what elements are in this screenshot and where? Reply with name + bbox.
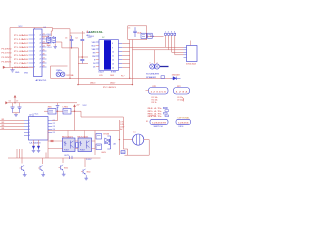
svg-text:VCC: VCC: [83, 105, 88, 107]
svg-text:VEE: VEE: [92, 49, 97, 51]
LCD left pin RW: [96, 55, 99, 57]
wire cross vertical: [81, 31, 83, 39]
svg-text:1 2 3 4: 1 2 3 4: [176, 91, 190, 93]
pin 9 stub U1 left: [29, 66, 34, 68]
wire stub row EA: [70, 32, 85, 34]
wire box right: [146, 26, 148, 37]
pin stub U2 right 14: [48, 132, 52, 134]
wire XTAL1: [42, 35, 49, 37]
svg-text:SPEAKER: SPEAKER: [146, 76, 157, 79]
wire input IN2: [0, 123, 24, 125]
resistor pack RP2: [174, 88, 190, 95]
svg-text:1 2 3 4 5 6: 1 2 3 4 5 6: [151, 91, 168, 93]
svg-text:12345678: 12345678: [152, 122, 167, 124]
wire power mid b: [56, 110, 63, 112]
sounder LS1 circle A: [150, 64, 155, 69]
wire lamp loop left: [127, 149, 129, 155]
LCD left pin VEE: [96, 48, 99, 50]
optocoupler U3 body: [63, 138, 76, 152]
wire U1 pin31 stub: [34, 28, 36, 29]
svg-text:VDD: VDD: [91, 45, 96, 47]
svg-text:2: 2: [34, 39, 35, 41]
svg-text:28: 28: [43, 62, 45, 64]
wire vertical LCD right A: [129, 39, 131, 78]
svg-text:O5: O5: [53, 132, 55, 134]
svg-text:LM016L: LM016L: [89, 30, 104, 34]
wire right loop v: [122, 117, 124, 149]
svg-text:R3 1k: R3 1k: [152, 102, 157, 104]
junction d: [14, 102, 15, 103]
transistor Q2: [39, 166, 41, 170]
svg-text:AT89C51: AT89C51: [36, 79, 48, 82]
LCD screen area: [104, 40, 111, 69]
svg-text:C6: C6: [9, 101, 11, 103]
svg-text:MOC3021: MOC3021: [62, 136, 73, 138]
wire bottom rail: [8, 157, 101, 159]
svg-text:12MHz: 12MHz: [56, 70, 62, 72]
svg-text:VSS: VSS: [24, 73, 29, 75]
svg-text:D0-D7: D0-D7: [99, 72, 104, 74]
svg-text:5: 5: [29, 132, 30, 134]
wire triac box left: [94, 131, 96, 156]
wire input IN1: [0, 120, 24, 122]
wire drop q4: [84, 158, 86, 167]
svg-text:4: 4: [29, 129, 30, 131]
svg-text:DS1302: DS1302: [186, 64, 197, 66]
resistor R2: [148, 33, 153, 38]
svg-text:21: 21: [40, 35, 42, 37]
svg-text:1N4148: 1N4148: [172, 75, 180, 77]
power input arrow: [6, 102, 8, 105]
wire caps bottom rail: [62, 47, 79, 49]
svg-text:A2: A2: [114, 142, 116, 145]
wire header pin 3 down: [171, 35, 173, 52]
wire bus row 4: [175, 54, 184, 56]
svg-text:IN4: IN4: [2, 128, 5, 130]
power flag arrow: [3, 66, 5, 69]
svg-text:4: 4: [34, 47, 35, 49]
wire top jog horizontal: [53, 28, 71, 30]
switch SW1: [150, 119, 168, 124]
pin stub U2 right 11: [48, 123, 52, 125]
pin stub U1 right P0.1: [42, 38, 47, 40]
ground crystal: [54, 44, 56, 47]
wire LCD pin 8: [122, 42, 129, 44]
pin stub U1 right P0.2: [42, 42, 47, 44]
crystal X1 circle B: [61, 72, 65, 76]
svg-text:5V: 5V: [102, 37, 105, 39]
svg-text:21: 21: [43, 34, 45, 36]
thermistor mark: [161, 76, 165, 79]
wire right loop h: [81, 116, 123, 118]
LCD left pin D1: [96, 66, 99, 68]
pin 4 stub U1 left: [29, 46, 34, 48]
wire box bottom: [128, 39, 147, 41]
svg-text:9: 9: [34, 67, 35, 69]
svg-text:12: 12: [112, 59, 114, 61]
junction cross: [82, 56, 84, 58]
wire lamp loop bottom: [125, 154, 150, 156]
svg-text:E RW: E RW: [111, 72, 116, 74]
svg-text:P1.5/AD5: P1.5/AD5: [14, 54, 29, 57]
wire power mid a: [44, 110, 48, 112]
pin stub U5 1: [184, 46, 187, 48]
pin stub U5 4: [184, 54, 187, 56]
wire header pin 1 down: [165, 35, 167, 47]
wire sounder feed: [154, 50, 156, 64]
pin stub U1 right P0.6: [42, 58, 47, 60]
svg-text:1602: 1602: [110, 75, 114, 77]
wire opto link a: [75, 140, 78, 142]
wire RST rail: [3, 66, 34, 68]
svg-text:P2.0: P2.0: [150, 36, 155, 38]
wire left vertical to EA: [9, 28, 11, 68]
svg-text:7805: 7805: [48, 107, 52, 109]
ground caps power: [15, 113, 17, 115]
capacitor C7 electrolytic: [19, 103, 21, 107]
wire cap C10 to U2: [57, 111, 59, 120]
wire LCD pin 9: [122, 46, 129, 48]
wire bus row 3: [172, 51, 184, 53]
ground U2 a: [33, 149, 35, 151]
wire power rail top: [8, 102, 77, 104]
svg-text:S1 RST: S1 RST: [150, 115, 157, 117]
junction f: [132, 84, 133, 85]
svg-text:9: 9: [112, 47, 113, 49]
ground Q1: [24, 172, 26, 175]
wire SSR box left: [47, 131, 49, 159]
lamp LP1: [133, 134, 144, 145]
wire VCC rail top: [10, 27, 53, 29]
svg-text:27: 27: [43, 58, 45, 60]
svg-text:29: 29: [43, 66, 45, 68]
wire U2 gnd b: [38, 140, 40, 147]
svg-text:VCC: VCC: [19, 26, 24, 28]
pin 2 stub U1 left: [29, 38, 34, 40]
svg-text:RP2: RP2: [177, 86, 181, 88]
svg-text:IN2: IN2: [2, 122, 5, 124]
svg-text:P2.7: P2.7: [121, 75, 125, 77]
svg-text:K1: K1: [146, 121, 148, 123]
svg-text:L7806: L7806: [63, 107, 68, 109]
connector marks: [69, 156, 71, 159]
svg-text:BT136: BT136: [104, 134, 110, 136]
wire corner a2: [56, 41, 62, 43]
wire crystal top to rail: [50, 31, 52, 36]
resistor row R4 body: [164, 107, 168, 109]
regulator B2 body: [63, 109, 71, 115]
svg-text:10: 10: [112, 51, 114, 53]
pin stub U2 left IN3: [24, 126, 29, 128]
resistor R10 small: [76, 143, 79, 148]
wire opto link b: [75, 148, 78, 150]
diode D1: [173, 77, 176, 80]
wire mains vertical: [118, 120, 120, 155]
pin 1 stub U1 left: [29, 34, 34, 36]
transistor Q1: [21, 166, 23, 170]
pin stub U5 3: [184, 51, 187, 53]
wire opto out a: [92, 140, 96, 142]
wire LCD pin 14: [122, 67, 129, 69]
junction e: [57, 111, 58, 112]
svg-text:DIP-6: DIP-6: [179, 126, 184, 128]
capacitor C5: [134, 27, 136, 31]
wire U3 top pin: [67, 131, 69, 139]
svg-text:D1: D1: [93, 66, 95, 68]
resistor R1: [141, 33, 146, 38]
svg-text:29: 29: [40, 67, 42, 69]
svg-text:5: 5: [34, 51, 35, 53]
wire header pin 2 down: [168, 35, 170, 49]
svg-text:L1: L1: [134, 131, 136, 133]
wire lamp feed: [123, 139, 132, 141]
svg-text:AC: AC: [120, 128, 123, 131]
wire opto in a: [48, 140, 63, 142]
svg-text:P3.3/INT1: P3.3/INT1: [2, 62, 12, 64]
header J1 pin 2 pad: [168, 33, 170, 35]
svg-text:13: 13: [112, 63, 114, 65]
sounder LS1 circle B: [154, 64, 159, 69]
sounder arrow: [160, 66, 169, 68]
svg-text:C5: C5: [128, 27, 130, 29]
svg-text:CRYSTAL: CRYSTAL: [66, 74, 75, 77]
svg-text:P1.7/AD7: P1.7/AD7: [14, 62, 29, 65]
LCD right pin stub 13: [119, 63, 123, 65]
wire bus row 2: [132, 49, 183, 51]
svg-text:C4: C4: [75, 37, 77, 39]
svg-text:O3: O3: [53, 126, 55, 128]
pin stub U2 right 13: [48, 129, 52, 131]
wire LCD pin 11: [122, 54, 129, 56]
wire LCD pin 13: [122, 63, 129, 65]
svg-text:8550: 8550: [87, 172, 91, 174]
wire vertical left of LCD: [77, 48, 79, 85]
svg-text:25: 25: [40, 51, 42, 53]
wire cross horizontal: [78, 56, 88, 58]
svg-text:P1.6/AD6: P1.6/AD6: [14, 58, 29, 61]
wire branch h: [78, 63, 88, 65]
svg-text:26: 26: [40, 55, 42, 57]
svg-text:PC817: PC817: [86, 159, 92, 161]
svg-text:+5V: +5V: [76, 105, 80, 107]
header J1 pin 3 pad: [171, 33, 173, 35]
svg-text:U1: U1: [44, 27, 46, 29]
pin stub U2 left IN1: [24, 120, 29, 122]
switch SW2: [176, 119, 191, 124]
resistor row R6 body: [164, 112, 168, 114]
svg-text:VSS: VSS: [92, 42, 97, 44]
svg-text:14: 14: [112, 68, 114, 70]
ground U2 b: [38, 149, 40, 151]
wire drop q3: [62, 158, 64, 163]
junction a: [69, 78, 70, 79]
junction power: [74, 110, 76, 112]
pin stub U5 2: [184, 49, 187, 51]
LCD left pin E: [96, 59, 99, 61]
power arrow entry: [14, 95, 16, 97]
resistor R8: [96, 134, 102, 140]
U2 top pin: [32, 114, 34, 117]
wire right loop down: [80, 111, 82, 117]
LCD right pin stub 8: [119, 42, 123, 44]
svg-text:25: 25: [43, 50, 45, 52]
svg-text:D0: D0: [93, 63, 95, 65]
svg-text:22: 22: [43, 38, 45, 40]
resistor row R5 body: [165, 110, 169, 112]
svg-text:P3.0/RXD: P3.0/RXD: [2, 48, 13, 50]
svg-text:SWITCH: SWITCH: [154, 126, 164, 128]
fuse F1: [121, 151, 125, 154]
junction lamp: [119, 139, 120, 140]
svg-text:123456: 123456: [178, 122, 190, 124]
wire lamp loop right: [148, 140, 150, 156]
pin stub U1 right ALE: [42, 66, 47, 68]
wire box left: [127, 26, 129, 40]
svg-text:C7: C7: [16, 101, 18, 103]
LCD right pin stub 11: [119, 54, 123, 56]
title tick: [86, 31, 88, 33]
svg-text:1: 1: [150, 63, 151, 65]
capacitor C4: [80, 38, 84, 40]
wire crystal box left: [50, 66, 52, 78]
capacitor C1: [47, 37, 51, 42]
capacitor C10: [57, 103, 59, 105]
pin 3 stub U1 left: [29, 42, 34, 44]
svg-text:O4: O4: [53, 129, 55, 131]
ground Q3: [63, 171, 65, 174]
svg-text:IN3: IN3: [2, 125, 5, 127]
crystal X1 circle A: [56, 72, 60, 76]
down arrow a: [32, 146, 35, 149]
svg-text:P3.1/TXD: P3.1/TXD: [2, 53, 13, 55]
pin stub U5 5: [184, 56, 187, 58]
LCD left pin D0: [96, 62, 99, 64]
svg-text:RP1: RP1: [153, 86, 157, 88]
header J1 pin 4 pad: [174, 33, 176, 35]
svg-text:O2: O2: [53, 123, 55, 125]
LCD right pin stub 12: [119, 59, 123, 61]
wire corner a: [61, 42, 63, 48]
svg-text:DB4-7: DB4-7: [110, 82, 115, 84]
svg-text:RS: RS: [93, 52, 96, 54]
wire U2 gnd a: [33, 140, 35, 147]
capacitor C2: [52, 37, 56, 42]
svg-text:OUT1: OUT1: [64, 155, 69, 157]
capacitor C11: [80, 58, 84, 60]
wire to SSR box: [74, 111, 76, 130]
wire vertical LCD right B: [131, 39, 133, 84]
wire drop d1: [16, 149, 18, 158]
wire long rail below LCD: [51, 77, 172, 79]
wire box to header: [147, 36, 164, 38]
wire triac to loop: [123, 148, 127, 150]
svg-text:8550: 8550: [64, 168, 68, 170]
svg-text:MOC3021: MOC3021: [78, 136, 89, 138]
wire LCD pin 12: [122, 59, 129, 61]
svg-text:3: 3: [34, 43, 35, 45]
svg-text:1: 1: [34, 35, 35, 37]
svg-text:6: 6: [34, 55, 35, 57]
pin stub U1 right P0.0: [42, 34, 47, 36]
wire drop d2: [19, 149, 21, 158]
power arrow VCC: [74, 106, 76, 111]
wire drop d3: [21, 149, 23, 164]
wire U4 top pin: [84, 131, 86, 139]
svg-text:GND: GND: [15, 72, 20, 74]
wire bus row 1: [130, 46, 184, 48]
svg-text:22: 22: [40, 39, 42, 41]
ground U1 left: [12, 67, 14, 70]
svg-text:6: 6: [29, 135, 30, 137]
svg-text:P1.3/AD3: P1.3/AD3: [14, 46, 29, 49]
ground Q2: [42, 172, 44, 175]
pin stub U2 left IN4: [24, 129, 29, 131]
pin 7 stub U1 left: [29, 58, 34, 60]
wire XTAL2: [42, 43, 49, 45]
svg-text:IN1: IN1: [2, 119, 5, 121]
svg-text:7: 7: [34, 59, 35, 61]
pin stub U2 left IN2: [24, 123, 29, 125]
pin 5 stub U1 left: [29, 50, 34, 52]
svg-text:PC-8051: PC-8051: [103, 87, 117, 89]
pin stub U2 right 10: [48, 120, 52, 122]
svg-text:2: 2: [157, 63, 158, 65]
red tick mark: [183, 98, 185, 101]
wire jog down: [52, 28, 54, 31]
junction caps: [71, 47, 72, 48]
svg-text:P1.2/AD2: P1.2/AD2: [14, 42, 29, 45]
resistor R9: [96, 144, 102, 150]
wire drop q2: [42, 158, 44, 164]
svg-text:C3: C3: [65, 37, 67, 39]
svg-text:2: 2: [29, 123, 30, 125]
wire opto out b: [92, 148, 96, 150]
wire power mid c: [71, 110, 81, 112]
svg-text:3: 3: [29, 126, 30, 128]
LCD left pin VDD: [96, 45, 99, 47]
svg-text:8: 8: [34, 63, 35, 65]
pin stub U1 right P0.3: [42, 46, 47, 48]
wire box right lower: [146, 37, 148, 40]
wire box top: [128, 25, 147, 27]
wire RP1 stub: [146, 90, 149, 92]
svg-text:C1 C2: C1 C2: [47, 34, 52, 36]
svg-text:P3.2/INT0: P3.2/INT0: [2, 57, 12, 59]
pin stub U2 left IN5: [24, 132, 29, 134]
LCD right pin stub 10: [119, 50, 123, 52]
svg-text:LCD: LCD: [99, 75, 103, 77]
wire lamp out: [144, 139, 149, 141]
junction b: [77, 84, 78, 85]
svg-text:600V: 600V: [102, 152, 107, 154]
svg-text:PC817: PC817: [80, 150, 85, 152]
wire U2 out1: [52, 120, 58, 122]
LCD right pin stub 14: [119, 67, 123, 69]
ground Q4: [85, 175, 87, 178]
resistor row R7 body: [165, 115, 169, 117]
IC U1 body (AT89C51): [34, 29, 43, 77]
wire cap tops: [70, 35, 72, 37]
IC U5 DS1302 body: [187, 46, 198, 62]
pin stub U1 right P0.5: [42, 54, 47, 56]
junction c: [129, 78, 130, 79]
wire SSR box top: [48, 130, 119, 132]
svg-text:LCD1: LCD1: [89, 36, 95, 38]
IC U2 body: [29, 117, 49, 141]
wire stub f: [45, 153, 47, 159]
svg-text:SOUNDER: SOUNDER: [146, 73, 160, 75]
regulator B1 body: [48, 109, 56, 115]
